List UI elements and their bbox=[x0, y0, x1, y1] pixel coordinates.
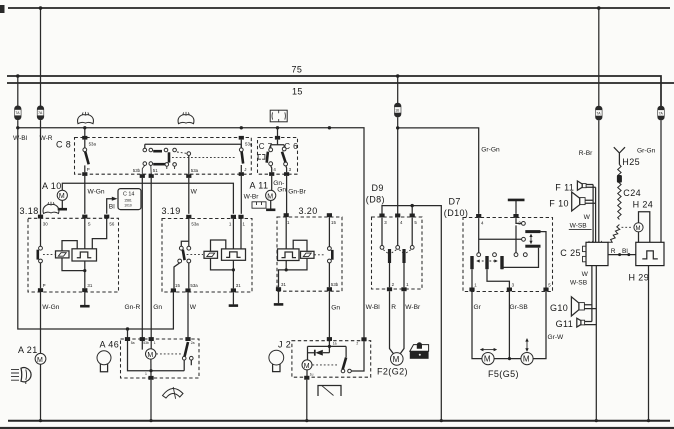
wire 3.20 31 to ground bbox=[278, 291, 280, 303]
svg-text:7A: 7A bbox=[15, 111, 20, 115]
C7 switch bbox=[258, 148, 273, 172]
speaker G11 bbox=[556, 318, 597, 329]
branch to D7 (Gr-Gn) bbox=[398, 128, 479, 214]
headlamp washer pump A21 bbox=[18, 345, 46, 421]
A46 terminal a bbox=[125, 337, 130, 341]
svg-text:G10: G10 bbox=[550, 303, 568, 313]
radio C25 bbox=[560, 241, 608, 266]
D9 terminal 5 bbox=[410, 214, 418, 226]
3.19 interval unit bbox=[222, 249, 246, 260]
svg-text:A 11: A 11 bbox=[250, 181, 269, 191]
wire Gr-Gn to H29 bbox=[660, 120, 662, 242]
lead into radio bbox=[608, 225, 620, 243]
svg-text:1581: 1581 bbox=[124, 198, 132, 202]
rear window icon bbox=[270, 110, 287, 122]
3.18 internal switch bbox=[38, 219, 55, 289]
motor unit D9 dashed box bbox=[372, 217, 423, 289]
svg-text:Gr-Gn: Gr-Gn bbox=[481, 147, 500, 154]
svg-text:7A: 7A bbox=[659, 112, 664, 116]
svg-text:W: W bbox=[584, 214, 591, 221]
ground 3.19 bbox=[229, 304, 238, 307]
svg-text:S: S bbox=[88, 222, 91, 227]
svg-text:1: 1 bbox=[145, 372, 147, 376]
svg-text:Gn-Br: Gn-Br bbox=[288, 188, 306, 195]
3.20 relay coil bbox=[301, 251, 315, 258]
svg-text:W-Br: W-Br bbox=[405, 304, 421, 311]
svg-text:M: M bbox=[484, 355, 491, 364]
svg-text:M: M bbox=[147, 352, 153, 359]
junction feed/C7 bbox=[276, 126, 279, 129]
J2 bulb icon bbox=[269, 350, 284, 371]
svg-text:M: M bbox=[59, 193, 65, 200]
svg-text:R: R bbox=[391, 304, 396, 311]
svg-text:1a: 1a bbox=[333, 341, 337, 345]
svg-text:53a: 53a bbox=[191, 222, 199, 227]
svg-text:4: 4 bbox=[400, 220, 403, 225]
ground rail junctions bbox=[39, 419, 42, 422]
svg-text:C24: C24 bbox=[623, 188, 641, 198]
svg-text:15: 15 bbox=[175, 283, 180, 288]
J2 internal wiring bbox=[308, 341, 347, 360]
J2 diode bbox=[315, 350, 330, 356]
svg-text:C 14: C 14 bbox=[123, 192, 134, 198]
A46 bottom junction bbox=[145, 372, 154, 380]
fuse 3 (wiper motor feed) bbox=[394, 74, 401, 214]
svg-text:W-Bl: W-Bl bbox=[13, 135, 28, 142]
svg-text:1u: 1u bbox=[310, 372, 314, 376]
svg-text:5a: 5a bbox=[131, 341, 135, 345]
svg-text:W-Gn: W-Gn bbox=[88, 189, 105, 196]
C8 terminal 53a (left) bbox=[82, 128, 96, 147]
svg-text:5: 5 bbox=[548, 282, 551, 287]
C8 terminal P bbox=[82, 167, 90, 176]
C8 right switch (rear wash) bbox=[239, 136, 253, 176]
svg-text:16: 16 bbox=[395, 109, 399, 113]
3.18 terminal S bbox=[82, 215, 90, 227]
switched feed line from fuse1 bbox=[18, 128, 364, 339]
svg-text:Gr: Gr bbox=[474, 304, 482, 311]
svg-text:A 10: A 10 bbox=[42, 181, 62, 191]
3.18 interval unit bbox=[72, 249, 97, 261]
rear wiper switch J2 dashed box bbox=[292, 341, 371, 378]
top supply rail 30 bbox=[8, 7, 670, 9]
svg-text:A 21: A 21 bbox=[18, 345, 38, 355]
svg-text:W-SB: W-SB bbox=[570, 279, 588, 286]
svg-text:1: 1 bbox=[243, 222, 246, 227]
3.19 terminal 15 bbox=[171, 283, 181, 292]
washer pump A10 bbox=[42, 181, 233, 214]
3.19 internal switch bbox=[174, 219, 203, 289]
C8 terminal 53a (mid) bbox=[186, 168, 198, 178]
C8 terminal 51 bbox=[149, 168, 159, 178]
svg-text:D9: D9 bbox=[372, 183, 384, 193]
svg-text:5: 5 bbox=[414, 220, 417, 225]
svg-text:Gn: Gn bbox=[331, 304, 340, 311]
svg-text:Gr-W: Gr-W bbox=[548, 334, 565, 341]
scan mark top-left bbox=[0, 5, 5, 13]
svg-text:H 29: H 29 bbox=[629, 272, 650, 282]
C6 terminal 3 bbox=[284, 167, 292, 176]
D7 terminal 3 bbox=[507, 282, 515, 291]
svg-text:30: 30 bbox=[43, 222, 48, 227]
svg-text:1010: 1010 bbox=[124, 203, 132, 207]
svg-text:Gn: Gn bbox=[153, 304, 162, 311]
svg-text:F2(G2): F2(G2) bbox=[377, 367, 408, 377]
3.20 switch bbox=[314, 217, 332, 287]
3.18 terminal 31 bbox=[82, 283, 93, 292]
3.19 terminal 31 bbox=[231, 283, 241, 292]
svg-text:1: 1 bbox=[287, 220, 290, 225]
A46 bulb icon bbox=[97, 351, 111, 372]
J2 bottom terminal bbox=[304, 372, 313, 379]
svg-text:D7: D7 bbox=[449, 196, 461, 206]
svg-text:15: 15 bbox=[292, 87, 303, 97]
3.20 terminal 15 bbox=[327, 213, 337, 225]
svg-text:G11: G11 bbox=[556, 319, 574, 329]
3.20 terminal 53b bbox=[327, 282, 339, 291]
washer icon A10 bbox=[43, 202, 59, 214]
svg-text:53b: 53b bbox=[143, 341, 149, 345]
speaker feed wires to C25 bbox=[593, 185, 596, 243]
svg-text:51: 51 bbox=[153, 168, 158, 173]
wire A46 to ground rail bbox=[150, 380, 152, 421]
svg-text:W: W bbox=[582, 271, 589, 278]
svg-text:Gr-Gn: Gr-Gn bbox=[637, 148, 656, 155]
svg-text:53a: 53a bbox=[245, 141, 253, 146]
svg-text:53a: 53a bbox=[191, 168, 199, 173]
svg-text:3: 3 bbox=[512, 282, 515, 287]
wire C6 3 to 3.20 (Gn-Br) bbox=[286, 176, 288, 214]
speaker G10 bbox=[550, 297, 596, 316]
wire C8 51 to A46 (Gn) bbox=[150, 178, 152, 340]
fuse 4 (radio R-Br) bbox=[595, 6, 602, 120]
rear washer pump A11 bbox=[250, 176, 276, 209]
svg-text:1: 1 bbox=[406, 282, 409, 287]
svg-text:F 11: F 11 bbox=[555, 182, 574, 192]
bottom ground rail bbox=[8, 420, 670, 422]
wire W-R fuse to 3.18 terminal 30 bbox=[40, 120, 42, 215]
wire C8 J to 3.19 (W-Br) bbox=[240, 176, 242, 214]
junction feed/C8 right 53a bbox=[240, 126, 243, 129]
rear speaker wires from C25 bbox=[592, 266, 596, 421]
svg-text:Bl: Bl bbox=[622, 248, 628, 255]
3.18 terminal 30 bbox=[38, 215, 48, 227]
3.20 terminal 1 bbox=[284, 213, 290, 225]
svg-text:2: 2 bbox=[356, 341, 358, 345]
A46 internal wiring bbox=[128, 341, 185, 371]
D7 terminal 4 bbox=[476, 214, 484, 225]
wiper function icon middle bbox=[178, 112, 194, 124]
svg-text:F 10: F 10 bbox=[549, 199, 569, 209]
junction feed/C8 53a bbox=[16, 126, 19, 129]
headlamp wiper A46 dashed box bbox=[121, 339, 200, 378]
svg-text:C 8: C 8 bbox=[56, 140, 71, 150]
ground 3.18 bbox=[80, 305, 90, 308]
wiper arc icon A46 bbox=[163, 387, 184, 399]
fuse 1 (left, W-Bl feed) bbox=[14, 74, 21, 128]
3.20 interval unit bbox=[278, 249, 300, 261]
switch C7/C6 dashed box bbox=[258, 138, 298, 175]
svg-text:31: 31 bbox=[236, 283, 241, 288]
link lead to aerial motor bbox=[622, 226, 632, 228]
D7 terminal 5 bbox=[543, 282, 551, 291]
washer pump F5 left bbox=[480, 348, 497, 365]
svg-text:4: 4 bbox=[273, 167, 276, 172]
svg-text:1: 1 bbox=[229, 222, 232, 227]
3.20 terminal 31 bbox=[276, 282, 287, 291]
svg-text:3: 3 bbox=[384, 220, 387, 225]
svg-text:W-Bl: W-Bl bbox=[366, 304, 381, 311]
relay 3.20 dashed box bbox=[277, 217, 342, 291]
svg-text:4: 4 bbox=[481, 220, 484, 225]
D9 terminal 1 bbox=[401, 282, 409, 291]
wire 3.19 31 to ground bbox=[232, 292, 234, 304]
C8 terminal 53b bbox=[133, 168, 145, 178]
rear wiper icon bbox=[318, 386, 341, 397]
D9 terminal 4 bbox=[395, 214, 403, 226]
wires D7 to washer pumps bbox=[472, 291, 546, 358]
wire 3.18 P to A21 (W-Gn) bbox=[40, 292, 42, 353]
fuse 2 (W-R feed from rail 30) bbox=[37, 6, 44, 120]
A46 terminal c bbox=[149, 337, 154, 341]
wire C8 53a to 3.19 (W) bbox=[188, 178, 190, 214]
D7 internals bbox=[472, 218, 546, 287]
screen connection above terminal 2 bbox=[508, 200, 525, 214]
wire C8 53b to A46 (Gn-R) bbox=[141, 178, 143, 340]
timer unit H29 bbox=[629, 242, 665, 282]
J2 terminal 2 bbox=[356, 337, 366, 345]
svg-text:Bl: Bl bbox=[109, 203, 115, 210]
svg-text:W: W bbox=[191, 189, 198, 196]
motor unit D7 dashed box bbox=[463, 218, 553, 292]
wire 3.18 31 to ground bbox=[84, 292, 86, 305]
A46 terminal d bbox=[185, 337, 190, 341]
svg-text:31: 31 bbox=[281, 282, 286, 287]
headlamp icon A21 bbox=[11, 368, 31, 385]
ground 3.20 bbox=[274, 303, 284, 306]
svg-text:(D10): (D10) bbox=[444, 208, 469, 218]
svg-text:Gn-R: Gn-R bbox=[125, 304, 141, 311]
svg-text:M: M bbox=[523, 355, 530, 364]
wire link to A46 pin bbox=[127, 329, 129, 340]
relay 3.18 dashed box bbox=[28, 218, 119, 292]
svg-text:56: 56 bbox=[109, 222, 114, 227]
C8 mechanical link bbox=[172, 157, 237, 159]
svg-text:W: W bbox=[190, 304, 197, 311]
J2 switch bbox=[341, 341, 364, 373]
3.19 terminal 53a top bbox=[186, 215, 199, 227]
speaker F11 bbox=[555, 181, 595, 192]
ground A10 bbox=[58, 208, 67, 211]
C8 left switch (windscreen washer) bbox=[83, 140, 89, 173]
3.18 terminal 56 bbox=[104, 215, 115, 227]
svg-text:2: 2 bbox=[392, 282, 395, 287]
svg-text:53a: 53a bbox=[89, 141, 97, 146]
svg-text:H25: H25 bbox=[622, 157, 640, 167]
svg-text:3.20: 3.20 bbox=[299, 206, 318, 216]
tailgate icon bbox=[410, 342, 429, 359]
bus bar 15 bbox=[7, 82, 674, 84]
svg-text:R: R bbox=[611, 248, 616, 255]
svg-text:2a: 2a bbox=[191, 341, 195, 345]
A46 motor bbox=[146, 341, 183, 377]
washer pump F5 right bbox=[521, 338, 533, 365]
C7 internal feed bbox=[271, 140, 285, 148]
svg-text:F5(G5): F5(G5) bbox=[488, 369, 519, 379]
speaker F10 bbox=[549, 192, 595, 211]
3.19 internal wiring bbox=[211, 219, 242, 289]
wire J2 to ground rail bbox=[306, 380, 308, 421]
bus bar 75 bbox=[7, 76, 661, 106]
svg-text:M: M bbox=[636, 226, 641, 232]
D9 terminal 3 bbox=[379, 214, 387, 226]
J2 motor bbox=[302, 360, 339, 377]
aerial mast H24 bbox=[633, 199, 654, 242]
svg-text:15: 15 bbox=[331, 220, 336, 225]
svg-text:53b: 53b bbox=[133, 168, 141, 173]
3.19 terminal 1a bbox=[229, 215, 236, 227]
bottom scan border bbox=[0, 427, 674, 429]
C8 53a contact to 3.19 bbox=[177, 152, 191, 174]
connector icon A11 bbox=[252, 202, 266, 208]
svg-text:P: P bbox=[87, 167, 90, 172]
svg-text:3.18: 3.18 bbox=[20, 206, 39, 216]
wire R-Bl radio to timer bbox=[608, 248, 636, 256]
3.19 terminal 53a bottom bbox=[185, 283, 198, 292]
3.19 relay coil bbox=[204, 251, 218, 258]
3.18 terminal P bbox=[38, 283, 46, 292]
wire 3.20 53b to J2 (Gn) bbox=[328, 291, 330, 338]
washer function icon left bbox=[78, 112, 94, 124]
D9 internals bbox=[380, 218, 414, 288]
svg-text:M: M bbox=[37, 357, 43, 364]
wires D9 to wiper motor F2 bbox=[390, 291, 405, 354]
aerial screened lead bbox=[618, 165, 621, 220]
svg-text:Gn: Gn bbox=[277, 186, 286, 193]
svg-text:7A: 7A bbox=[38, 111, 43, 115]
svg-text:53b: 53b bbox=[331, 282, 339, 287]
junction feed/3.20 bbox=[328, 126, 331, 129]
C7 top terminal bbox=[275, 128, 280, 140]
C8 internal feed wire bbox=[145, 144, 242, 148]
wiper switch C8 dashed box bbox=[75, 138, 252, 175]
D7 terminal 2 bbox=[513, 214, 521, 225]
wiper motor F2(G2) bbox=[377, 353, 408, 377]
svg-text:W-Br: W-Br bbox=[244, 194, 260, 201]
svg-text:J 2: J 2 bbox=[278, 339, 291, 349]
wire C8 P to 3.18 S bbox=[84, 176, 86, 214]
svg-text:W-Gn: W-Gn bbox=[42, 304, 59, 311]
connector C14 bbox=[118, 189, 141, 210]
aerial H25 bbox=[614, 147, 640, 167]
svg-text:M: M bbox=[304, 363, 310, 370]
svg-text:1: 1 bbox=[474, 282, 477, 287]
wire R-Br to radio C25 bbox=[598, 120, 600, 242]
svg-text:W-R: W-R bbox=[40, 135, 53, 142]
3.18 internal wiring bbox=[62, 219, 107, 289]
C7 terminal 4 bbox=[269, 167, 276, 176]
A46 switch bbox=[182, 342, 193, 371]
junction link/A46 bbox=[126, 327, 129, 330]
wire W-Bl down + link line y329 bbox=[18, 128, 174, 329]
arrow wire Bl into C14 bbox=[107, 197, 118, 214]
svg-text:J: J bbox=[244, 167, 246, 172]
wire 3.19 53a to A46 (W) bbox=[187, 292, 189, 339]
svg-text:75: 75 bbox=[292, 65, 303, 75]
C8 middle contact set bbox=[142, 148, 176, 174]
ground A11 bbox=[266, 209, 275, 212]
svg-text:3.19: 3.19 bbox=[162, 206, 181, 216]
relay 3.19 dashed box bbox=[162, 219, 252, 293]
svg-text:7A: 7A bbox=[596, 112, 601, 116]
J2 terminal 1a bbox=[327, 337, 337, 345]
C6 switch bbox=[282, 147, 288, 172]
svg-text:(D8): (D8) bbox=[366, 194, 385, 204]
fuse 5 (Gr-Gn right) bbox=[657, 106, 664, 121]
3.20 internal wiring bbox=[279, 217, 308, 287]
D9 terminal 2 bbox=[387, 282, 395, 291]
connector C24 bbox=[617, 175, 622, 183]
svg-text:31: 31 bbox=[87, 283, 92, 288]
svg-text:P: P bbox=[43, 283, 46, 288]
svg-text:Gr-SB: Gr-SB bbox=[510, 304, 529, 311]
wire H29 to ground rail bbox=[648, 266, 650, 421]
A46 terminal b bbox=[140, 337, 145, 341]
label W-SB front bbox=[569, 223, 592, 230]
svg-text:W-SB: W-SB bbox=[570, 223, 588, 230]
D7 terminal 1 bbox=[469, 282, 477, 291]
svg-text:C 25: C 25 bbox=[560, 248, 581, 258]
svg-text:3: 3 bbox=[289, 167, 292, 172]
3.19 terminal 1b bbox=[238, 215, 245, 227]
3.18 relay coil bbox=[56, 251, 70, 258]
svg-text:1: 1 bbox=[154, 341, 156, 345]
svg-text:M: M bbox=[267, 193, 273, 200]
D9 ground link wire bbox=[382, 206, 441, 421]
svg-text:M: M bbox=[393, 355, 400, 364]
svg-text:H 24: H 24 bbox=[633, 199, 654, 209]
svg-text:A 46: A 46 bbox=[100, 340, 120, 350]
svg-text:R-Br: R-Br bbox=[579, 150, 593, 157]
svg-text:53a: 53a bbox=[190, 283, 198, 288]
